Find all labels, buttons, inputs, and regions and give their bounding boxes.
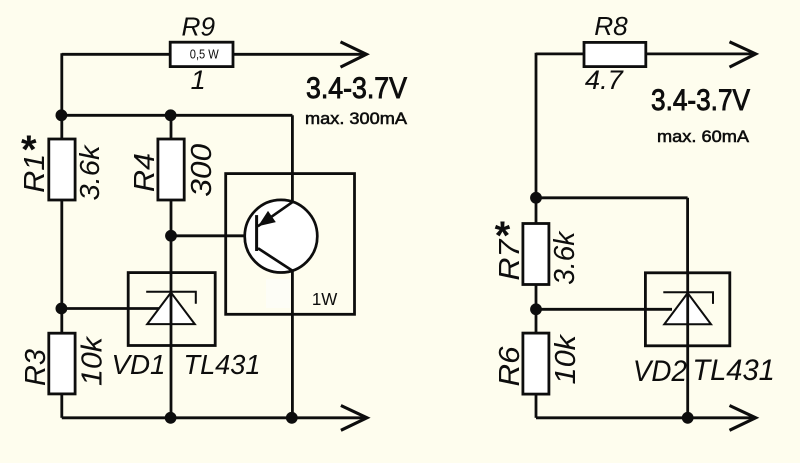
svg-text:3.4-3.7V: 3.4-3.7V: [651, 84, 750, 117]
svg-text:4.7: 4.7: [585, 65, 624, 95]
svg-text:300: 300: [186, 144, 218, 197]
svg-text:TL431: TL431: [692, 354, 775, 387]
svg-text:3.4-3.7V: 3.4-3.7V: [306, 72, 407, 105]
svg-text:R3: R3: [20, 349, 52, 386]
svg-text:0,5 W: 0,5 W: [190, 47, 219, 61]
svg-text:VD1: VD1: [112, 349, 166, 380]
svg-text:10k: 10k: [550, 333, 582, 384]
svg-text:1W: 1W: [312, 289, 338, 309]
svg-text:VD2: VD2: [633, 355, 687, 388]
svg-text:R9: R9: [182, 11, 216, 41]
svg-text:R8: R8: [594, 11, 628, 41]
svg-text:max. 60mA: max. 60mA: [657, 127, 750, 146]
svg-text:1: 1: [191, 65, 206, 95]
svg-text:max. 300mA: max. 300mA: [305, 109, 408, 128]
svg-text:3.6k: 3.6k: [74, 143, 105, 200]
svg-text:TL431: TL431: [184, 349, 261, 380]
svg-text:3.6k: 3.6k: [549, 230, 581, 284]
svg-text:R7: R7: [494, 238, 526, 281]
svg-text:R1: R1: [19, 154, 51, 193]
svg-text:R6: R6: [494, 346, 526, 387]
svg-text:10k: 10k: [77, 335, 109, 386]
svg-text:R4: R4: [129, 153, 161, 192]
